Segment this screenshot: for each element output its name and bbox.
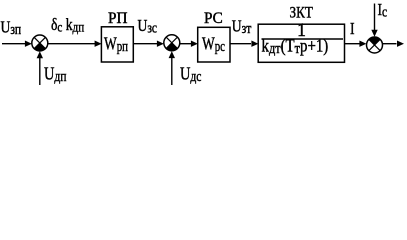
svg-text:Wрп: Wрп [104, 35, 128, 55]
wire feedback Uдп up into summer 1 [39, 58, 41, 85]
svg-text:δс kдп: δс kдп [51, 16, 84, 35]
block Wрп (position regulator) [101, 27, 133, 62]
svg-text:Uзт: Uзт [232, 17, 252, 36]
wire Iс down into summer 3 [374, 4, 376, 31]
svg-text:Iс: Iс [378, 1, 388, 20]
summing junction 1 (circle with X, bottom sector filled) [32, 35, 48, 51]
wire Wрс to ЗКТ block [230, 43, 251, 45]
svg-text:Uзп: Uзп [1, 18, 22, 37]
wire summer2 to Wрс block [179, 43, 192, 45]
wire summer1 to Wрп block [47, 43, 95, 45]
svg-text:Uзс: Uзс [138, 17, 158, 36]
svg-text:I: I [350, 20, 355, 39]
wire output I from summer 3 [382, 43, 396, 45]
svg-text:kдт(Tтp+1): kдт(Tтp+1) [262, 36, 329, 56]
summing junction 2 (circle with X, bottom sector filled) [164, 35, 180, 51]
svg-text:РП: РП [108, 10, 127, 27]
svg-text:РС: РС [204, 10, 223, 27]
wire Wрп to summer 2 [133, 43, 157, 45]
block Wрс (speed regulator) [198, 27, 230, 62]
wire feedback Uдс up into summer 2 [171, 58, 173, 85]
fraction bar [262, 38, 344, 40]
wire input Uzp arrow into summer 1 [2, 43, 26, 45]
block ЗКТ transfer function 1/(kдт(Tтp+1)) [258, 24, 344, 62]
wire ЗКТ to summer 3 [345, 43, 361, 45]
summing junction 3 (circle with X, top sector filled) [367, 37, 383, 53]
svg-text:Wрс: Wрс [202, 35, 225, 55]
